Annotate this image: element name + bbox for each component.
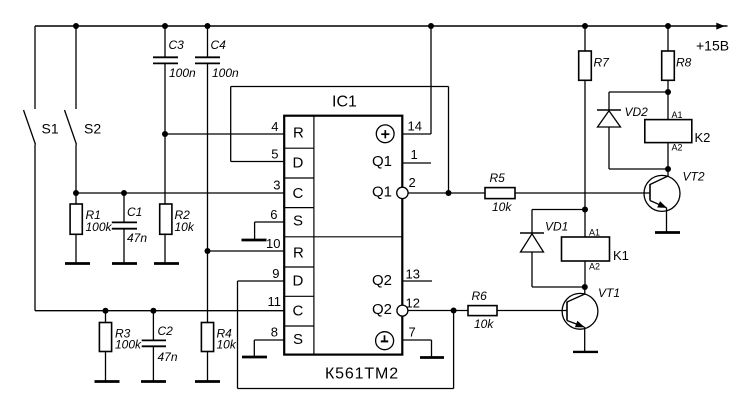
svg-text:9: 9 bbox=[272, 266, 279, 281]
resistor R3 bbox=[99, 308, 142, 382]
ground C1 bbox=[112, 262, 137, 265]
transistor VT1 bbox=[562, 286, 620, 352]
wire R6 to VT1 base bbox=[497, 310, 567, 312]
wire IC pin 6 to ground bbox=[255, 222, 284, 240]
wire D2 feedback loop (pin9 to Q2-bar) bbox=[238, 281, 457, 389]
ground R2 bbox=[154, 262, 179, 265]
svg-text:6: 6 bbox=[270, 207, 277, 222]
ground R4 bbox=[195, 380, 220, 383]
wire IC pin 10 bbox=[208, 250, 285, 252]
label Q1 outputs bbox=[372, 153, 392, 318]
resistor R5 bbox=[485, 171, 515, 214]
svg-text:10k: 10k bbox=[492, 200, 512, 214]
switch S1 bbox=[24, 26, 59, 311]
svg-text:13: 13 bbox=[406, 267, 420, 282]
power symbol common in circle (pin 7) bbox=[376, 332, 394, 350]
pin numbers right bbox=[406, 119, 422, 340]
node +15V arrow tip bbox=[716, 23, 725, 30]
svg-text:K2: K2 bbox=[695, 130, 711, 145]
svg-text:5: 5 bbox=[271, 147, 278, 162]
svg-text:К561ТМ2: К561ТМ2 bbox=[325, 366, 399, 383]
diode VD1 bbox=[520, 210, 585, 288]
wire Q1-bar to R5 bbox=[408, 192, 486, 194]
resistor R1 bbox=[70, 193, 112, 264]
svg-text:11: 11 bbox=[268, 294, 282, 309]
wire clock1 net S2/R1/C1 to IC pin 3 bbox=[73, 190, 284, 196]
node Q1-bar inversion bubble pin 2 bbox=[397, 187, 408, 198]
wire IC pin 13 stub bbox=[402, 280, 432, 282]
svg-text:47n: 47n bbox=[127, 231, 147, 245]
svg-text:S: S bbox=[293, 331, 303, 348]
svg-text:R8: R8 bbox=[676, 56, 692, 70]
resistor R6 bbox=[468, 289, 497, 331]
ground C2 bbox=[141, 380, 166, 383]
svg-text:100n: 100n bbox=[212, 66, 239, 80]
node Q2-bar inversion bubble pin 12 bbox=[397, 305, 408, 316]
svg-text:C: C bbox=[293, 303, 304, 320]
node VT2 collector junction bbox=[665, 166, 671, 172]
svg-text:3: 3 bbox=[273, 178, 280, 193]
IC input letters R D C S / R D C S bbox=[293, 125, 305, 349]
svg-text:100k: 100k bbox=[86, 220, 113, 234]
node K2 top junction bbox=[665, 89, 671, 95]
node pin4 net / wire to IC pin 4 bbox=[162, 131, 284, 137]
label K561TM2 bbox=[325, 366, 399, 383]
svg-text:R5: R5 bbox=[490, 171, 506, 185]
wire IC pin 14 to rail bbox=[402, 23, 434, 134]
wire top +15V rail bbox=[35, 25, 728, 27]
ground pin 7 bbox=[420, 356, 444, 359]
resistor R4 bbox=[201, 248, 236, 382]
svg-text:Q2: Q2 bbox=[372, 301, 392, 318]
svg-text:100n: 100n bbox=[169, 66, 196, 80]
relay K1 bbox=[562, 210, 629, 288]
ground pin 8 bbox=[242, 356, 267, 359]
svg-text:S2: S2 bbox=[84, 121, 101, 137]
svg-text:VT1: VT1 bbox=[598, 286, 620, 300]
svg-text:Q1: Q1 bbox=[372, 153, 392, 170]
svg-text:A1: A1 bbox=[672, 110, 683, 120]
capacitor C4 bbox=[195, 23, 239, 251]
transistor VT2 bbox=[644, 169, 705, 233]
resistor R2 bbox=[160, 134, 195, 264]
ground pin 6 bbox=[242, 239, 267, 242]
wire IC pin 1 stub bbox=[402, 162, 431, 164]
svg-text:10k: 10k bbox=[175, 220, 195, 234]
svg-text:+15В: +15В bbox=[696, 38, 729, 54]
wire R5 to VT2 base bbox=[515, 192, 650, 194]
svg-text:47n: 47n bbox=[158, 350, 178, 364]
switch S2 bbox=[65, 23, 102, 193]
svg-text:R7: R7 bbox=[594, 56, 611, 70]
svg-text:Q2: Q2 bbox=[372, 272, 392, 289]
wire bottom clock2 rail S1/R3/C2 to IC pin 11 bbox=[35, 310, 284, 312]
svg-text:C2: C2 bbox=[158, 324, 174, 338]
svg-text:14: 14 bbox=[408, 119, 422, 134]
svg-text:S: S bbox=[293, 213, 303, 230]
svg-text:C: C bbox=[293, 185, 304, 202]
svg-text:10k: 10k bbox=[217, 338, 237, 352]
svg-text:A2: A2 bbox=[589, 261, 600, 271]
pin numbers left bbox=[266, 119, 281, 340]
svg-text:A1: A1 bbox=[589, 228, 600, 238]
ground R3 bbox=[95, 380, 120, 383]
svg-text:1: 1 bbox=[411, 147, 418, 162]
svg-text:C4: C4 bbox=[211, 38, 227, 52]
resistor R7 bbox=[579, 23, 610, 210]
ground VT2 bbox=[655, 231, 680, 234]
capacitor C2 bbox=[142, 308, 178, 382]
label +15B bbox=[696, 38, 729, 54]
svg-text:IC1: IC1 bbox=[332, 94, 357, 111]
wire IC pin 7 to ground bbox=[402, 340, 431, 358]
svg-text:7: 7 bbox=[409, 325, 416, 340]
svg-text:R: R bbox=[293, 244, 304, 261]
node VT1 collector junction bbox=[582, 284, 588, 290]
wire Q2-bar to R6 bbox=[408, 310, 469, 312]
svg-text:100k: 100k bbox=[115, 338, 142, 352]
capacitor C1 bbox=[112, 190, 148, 264]
node K1 top junction bbox=[582, 207, 588, 213]
wire IC pin 8 to ground bbox=[254, 340, 284, 357]
svg-text:4: 4 bbox=[271, 119, 278, 134]
svg-text:S1: S1 bbox=[42, 121, 59, 137]
svg-text:Q1: Q1 bbox=[372, 184, 392, 201]
svg-text:K1: K1 bbox=[613, 248, 629, 263]
svg-text:10k: 10k bbox=[474, 317, 494, 331]
ground VT1 bbox=[573, 351, 598, 353]
svg-text:A2: A2 bbox=[672, 143, 683, 153]
relay K2 bbox=[645, 92, 711, 169]
svg-text:D: D bbox=[293, 155, 304, 172]
diode VD2 bbox=[597, 92, 668, 169]
svg-text:R: R bbox=[293, 125, 304, 142]
svg-text:D: D bbox=[293, 273, 304, 290]
resistor R8 bbox=[662, 23, 692, 92]
svg-text:R6: R6 bbox=[472, 289, 488, 303]
label IC1 bbox=[332, 94, 357, 111]
wire D1 feedback loop (pin5 to Q1-bar) bbox=[231, 87, 452, 197]
IC IC1 K561TM2 dual D flip-flop body bbox=[284, 116, 402, 355]
svg-text:VD2: VD2 bbox=[625, 105, 649, 119]
svg-text:C3: C3 bbox=[169, 38, 185, 52]
capacitor C3 bbox=[153, 23, 196, 134]
svg-text:C1: C1 bbox=[127, 205, 142, 219]
svg-text:VT2: VT2 bbox=[683, 170, 705, 184]
svg-text:2: 2 bbox=[409, 175, 416, 190]
svg-text:10: 10 bbox=[266, 236, 280, 251]
power symbol plus in circle (pin 14) bbox=[376, 125, 394, 143]
svg-text:VD1: VD1 bbox=[545, 220, 568, 234]
svg-text:8: 8 bbox=[271, 325, 278, 340]
ground R1 bbox=[65, 262, 90, 265]
